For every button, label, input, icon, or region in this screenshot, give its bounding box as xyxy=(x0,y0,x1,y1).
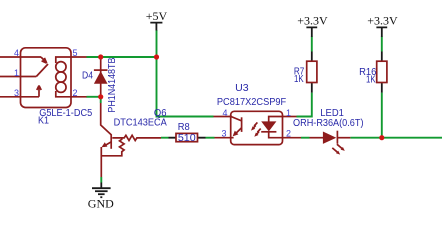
svg-text:K1: K1 xyxy=(38,115,49,126)
relay K1 NO contact arrow xyxy=(37,86,41,97)
resistor R8 body xyxy=(169,137,206,139)
LED1 cathode lead xyxy=(338,137,350,139)
wire: opto pin 1 to R7 bottom xyxy=(297,93,312,117)
ground symbol xyxy=(100,183,102,188)
junction dot: D4 anode / coil bottom xyxy=(98,94,103,99)
optocoupler U3 LED triangle xyxy=(261,121,276,131)
transistor Q6 base resistor (horizontal zigzag) xyxy=(112,135,161,140)
resistor R16 body xyxy=(381,52,383,93)
transistor Q6 bar xyxy=(110,134,112,149)
wire: relay pin5 to +5V node xyxy=(87,56,157,58)
wire: D4 anode node to Q6 collector stub xyxy=(100,97,102,103)
svg-text:3: 3 xyxy=(221,128,226,138)
svg-text:+3.3V: +3.3V xyxy=(367,14,398,28)
svg-text:1K: 1K xyxy=(294,74,304,85)
optocoupler U3 pin 1 xyxy=(283,116,297,118)
LED1 cathode bar xyxy=(336,131,338,144)
svg-text:2: 2 xyxy=(286,128,291,138)
relay K1 pin 1 line xyxy=(0,76,36,78)
relay K1 pin 3 line xyxy=(0,96,39,98)
optocoupler U3 LED anode path xyxy=(269,117,283,122)
svg-text:2: 2 xyxy=(73,88,78,98)
optocoupler U3 body xyxy=(231,111,283,144)
wire: R16 top to +3.3V xyxy=(381,37,383,52)
LED1 emission arrow 1 xyxy=(337,144,342,148)
svg-text:4: 4 xyxy=(222,108,227,118)
diode D4 xyxy=(100,59,102,96)
svg-text:U3: U3 xyxy=(235,83,249,94)
wire: R7 top to +3.3V xyxy=(311,37,313,52)
svg-text:R8: R8 xyxy=(178,122,190,133)
wire: R16 bottom to LED net xyxy=(381,93,383,138)
transistor Q6 emitter with arrow xyxy=(104,142,112,147)
LED1 anode lead xyxy=(310,137,324,139)
optocoupler U3 pin 3 xyxy=(215,137,234,139)
svg-text:DTC143ECA: DTC143ECA xyxy=(114,118,167,129)
wire: Q6 emitter to GND stub xyxy=(100,177,102,183)
optocoupler U3 pin 4 xyxy=(214,116,233,118)
svg-text:1: 1 xyxy=(14,68,19,78)
junction dot: R16 / LED net xyxy=(379,135,384,140)
relay K1 NC contact arrow xyxy=(41,57,47,63)
svg-text:+3.3V: +3.3V xyxy=(297,14,328,28)
optocoupler U3 pin 2 xyxy=(283,137,302,139)
svg-text:5: 5 xyxy=(73,48,78,58)
resistor R7 body xyxy=(311,52,313,93)
wire: relay pin2 to D4 anode node xyxy=(87,96,101,98)
junction dot: D4 cathode / +5V net xyxy=(98,54,103,59)
svg-text:3: 3 xyxy=(14,88,19,98)
svg-text:+5V: +5V xyxy=(146,9,168,23)
optocoupler U3 phototransistor xyxy=(231,117,242,121)
relay K1 pin 4 line xyxy=(0,56,41,58)
optocoupler U3 LED cathode path xyxy=(269,132,283,138)
relay K1 switch blade xyxy=(36,64,48,77)
svg-text:GND: GND xyxy=(88,196,114,210)
relay K1 body xyxy=(21,48,72,108)
svg-text:PC817X2CSP9F: PC817X2CSP9F xyxy=(217,97,286,108)
svg-text:PH1N4148TB: PH1N4148TB xyxy=(107,57,118,112)
wire: opto pin 2 to LED1 anode xyxy=(301,137,310,139)
relay K1 pin 5 line xyxy=(56,57,87,63)
wire: R8 right to opto pin 3 xyxy=(206,137,215,139)
transistor Q6 collector xyxy=(101,103,112,135)
relay K1 coil xyxy=(56,62,66,72)
svg-text:510: 510 xyxy=(178,133,196,144)
optocoupler U3 LED cathode bar xyxy=(261,131,276,133)
svg-text:4: 4 xyxy=(14,48,19,58)
optocoupler U3 light arrow 1 xyxy=(253,122,258,128)
LED1 emission arrow 2 xyxy=(332,148,337,152)
svg-text:1: 1 xyxy=(286,108,291,118)
svg-text:ORH-R36A(0.6T): ORH-R36A(0.6T) xyxy=(293,118,364,129)
svg-text:D4: D4 xyxy=(82,70,93,81)
wire: LED1 cathode to right edge xyxy=(350,137,442,139)
wire: R8 left to transistor base resistor xyxy=(161,137,169,139)
junction dot: +5V supply node xyxy=(154,54,159,59)
transistor Q6 base-emitter resistor (vertical zigzag) xyxy=(101,138,124,156)
svg-text:1K: 1K xyxy=(366,75,376,86)
wire: +5V vertical down to Q6 net and over to opto pin 4 xyxy=(157,30,214,117)
optocoupler U3 light arrow 2 xyxy=(256,129,261,135)
LED1 triangle xyxy=(323,132,336,144)
relay K1 pin 2 line xyxy=(56,91,87,97)
